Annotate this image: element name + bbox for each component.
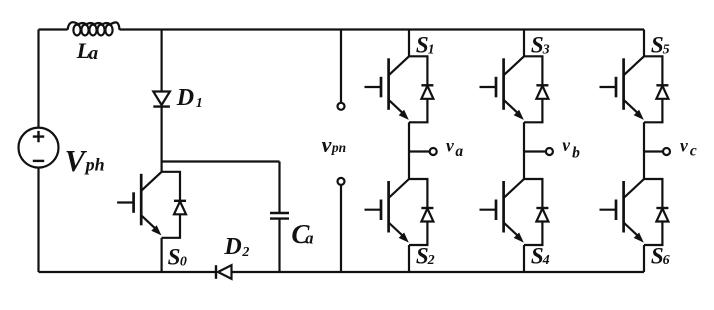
wire: leg C upper stub: [643, 30, 645, 57]
diode D1: [153, 92, 170, 107]
svg-text:2: 2: [427, 253, 435, 268]
label va: [446, 135, 463, 160]
svg-text:c: c: [690, 142, 697, 159]
IGBT S5 (with freewheeling diode): [600, 56, 669, 122]
wire: leg C middle segment: [643, 122, 645, 179]
svg-text:a: a: [89, 43, 99, 64]
svg-text:0: 0: [180, 255, 187, 270]
wire: leg B middle segment: [523, 122, 525, 179]
wire: tee from S0 branch to capacitor Ca top: [162, 160, 280, 162]
label La: [76, 38, 99, 64]
wire: node a stub: [409, 150, 430, 152]
node vb terminal: [546, 148, 553, 155]
IGBT S2 (with freewheeling diode): [365, 179, 434, 245]
label S4: [531, 243, 550, 268]
svg-text:6: 6: [663, 253, 670, 268]
label D2: [223, 234, 249, 260]
label S1: [416, 33, 435, 58]
voltage source Vph: [19, 128, 59, 168]
svg-text:ph: ph: [84, 155, 105, 175]
wire: top rail from source to coil: [39, 28, 68, 30]
svg-text:2: 2: [241, 245, 249, 260]
wire: leg B upper stub: [523, 30, 525, 57]
wire: left rail bottom (source to bottom rail): [37, 168, 39, 272]
label S0: [168, 244, 187, 269]
label D1: [176, 85, 203, 111]
wire: bottom rail right of D2: [232, 271, 645, 273]
label Ca: [291, 219, 313, 249]
wire: vpn top stub: [340, 30, 342, 103]
svg-text:1: 1: [196, 96, 203, 111]
label vc: [680, 135, 697, 159]
diode D2: [216, 265, 232, 279]
svg-text:S: S: [168, 244, 181, 269]
svg-text:D: D: [176, 85, 194, 111]
svg-text:V: V: [65, 144, 88, 178]
inductor La: [68, 22, 120, 35]
wire: leg C lower stub to bottom rail: [643, 245, 645, 272]
svg-text:a: a: [455, 143, 463, 160]
wire: vpn bottom stub: [340, 185, 342, 272]
IGBT S6 (with freewheeling diode): [600, 179, 669, 245]
IGBT S0 (with freewheeling diode): [117, 172, 186, 238]
label Vph: [65, 144, 105, 178]
svg-text:b: b: [572, 144, 580, 161]
svg-text:D: D: [223, 234, 241, 260]
svg-text:1: 1: [428, 42, 435, 57]
svg-text:v: v: [680, 135, 688, 155]
svg-text:pn: pn: [331, 140, 346, 155]
wire: node b stub: [524, 150, 546, 152]
label vpn: [322, 132, 347, 157]
label S2: [416, 243, 435, 268]
wire: leg B lower stub to bottom rail: [523, 245, 525, 272]
wire: left rail top (source to top rail): [37, 30, 39, 128]
node vpn negative terminal: [338, 178, 345, 185]
svg-text:3: 3: [542, 42, 550, 57]
svg-text:5: 5: [663, 42, 670, 57]
IGBT S4 (with freewheeling diode): [480, 179, 549, 245]
svg-text:v: v: [446, 135, 454, 155]
label S5: [651, 33, 670, 58]
capacitor Ca: [270, 162, 289, 273]
node vpn positive terminal: [338, 103, 345, 110]
svg-text:a: a: [305, 229, 313, 248]
wire: S0 emitter to bottom rail: [161, 238, 163, 272]
IGBT S3 (with freewheeling diode): [480, 56, 549, 122]
label S3: [531, 33, 550, 58]
label vb: [562, 135, 580, 161]
wire: top rail from coil to rightmost leg: [120, 28, 645, 30]
IGBT S1 (with freewheeling diode): [365, 56, 434, 122]
svg-text:4: 4: [542, 253, 550, 268]
wire: bottom rail left of D2: [39, 271, 217, 273]
wire: leg A lower stub to bottom rail: [408, 245, 410, 272]
node va terminal: [430, 148, 437, 155]
label S6: [651, 243, 670, 268]
wire: leg A upper stub: [408, 30, 410, 57]
svg-text:v: v: [322, 132, 332, 157]
node vc terminal: [663, 148, 670, 155]
wire: node c stub: [644, 150, 663, 152]
wire: D1 cathode down to S0 collector: [161, 107, 163, 172]
wire: leg A middle segment: [408, 122, 410, 179]
wire: D1/S0 branch from top rail to diode D1: [161, 30, 163, 92]
svg-text:v: v: [562, 135, 570, 155]
